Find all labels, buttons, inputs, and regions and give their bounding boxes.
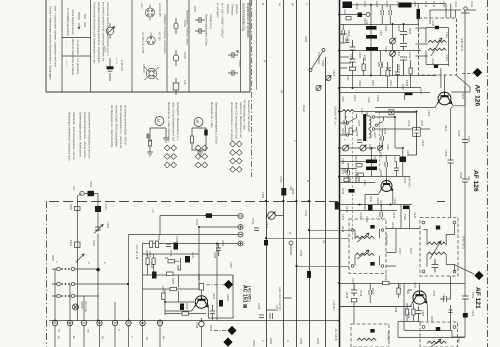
svg-text:L440: L440 — [363, 180, 367, 186]
svg-text:C446: C446 — [459, 172, 463, 179]
switch gang dashed — [352, 112, 354, 240]
svg-text:+ + +: + + + — [65, 60, 68, 66]
svg-text:C606: C606 — [385, 1, 389, 8]
transistor socket symbol 2 — [147, 33, 155, 45]
svg-text:R509: R509 — [291, 188, 295, 195]
AM460 pins — [351, 229, 354, 232]
svg-text:U(t) AM / AF / st.!: U(t) AM / AF / st.! — [334, 106, 338, 126]
svg-text:AM OSZ.: AM OSZ. — [408, 177, 412, 188]
svg-text:30p: 30p — [467, 176, 471, 181]
junction dots front — [370, 4, 372, 6]
svg-text:R502: R502 — [145, 250, 149, 257]
svg-text:NF-Messungen an ◇ über: NF-Messungen an ◇ über — [243, 100, 247, 130]
resistor R507 — [156, 241, 159, 248]
svg-text:gedruckt: gedruckt — [235, 4, 239, 14]
coil L407 — [366, 160, 377, 164]
svg-text:Nachdruck - auch auszugsweise: Nachdruck - auch auszugsweise - nur mit — [72, 112, 76, 160]
svg-text:C552: C552 — [299, 338, 303, 345]
svg-text:C609: C609 — [384, 46, 388, 53]
resistor R603 — [75, 242, 81, 248]
extra components lower mid — [369, 283, 372, 303]
V442 base wire — [375, 75, 453, 108]
small circle terminal mid — [289, 241, 293, 245]
capacitor voltage symbols — [195, 17, 205, 34]
svg-text:C505: C505 — [221, 240, 225, 247]
L407 wires — [339, 148, 410, 177]
svg-text:R404: R404 — [341, 168, 345, 175]
svg-text:Halbleiter / Transistor, conne: Halbleiter / Transistor, connections — [163, 14, 167, 54]
svg-text:TB: TB — [86, 329, 90, 333]
svg-text:240: 240 — [346, 76, 350, 81]
resistor R606 — [362, 64, 365, 71]
svg-text:L601: L601 — [104, 204, 108, 210]
svg-text:C450: C450 — [421, 310, 425, 317]
svg-text:L402: L402 — [367, 97, 371, 103]
svg-text:1/2 W: 1/2 W — [183, 52, 187, 59]
switch cluster FM dial — [309, 49, 331, 91]
svg-text:R601: R601 — [69, 204, 73, 211]
svg-text:C511: C511 — [304, 210, 308, 217]
svg-text:R539: R539 — [185, 303, 189, 310]
antenna caps C602b — [350, 59, 356, 67]
wire antenna down — [78, 194, 83, 322]
svg-text:L605: L605 — [413, 1, 417, 7]
R540 wire — [266, 215, 284, 217]
svg-text:only permitted with indication: only permitted with indication of source… — [88, 112, 92, 159]
svg-text:FM: FM — [457, 338, 461, 343]
svg-text:C452: C452 — [471, 292, 475, 299]
wire y313 — [398, 321, 421, 323]
wire to connector 243 — [143, 244, 239, 321]
svg-text:reserved! Reproduction - also: reserved! Reproduction - also by extract… — [83, 112, 87, 160]
svg-text:Antenne (60pF; 400Ω) durchgefü: Antenne (60pF; 400Ω) durchgeführt! — [115, 105, 119, 147]
connector circle column — [238, 214, 243, 247]
cap C409 wires — [395, 117, 403, 177]
svg-text:Explanation of symbols: Explanation of symbols — [246, 3, 250, 38]
resistor R539 — [182, 312, 189, 315]
svg-text:C611: C611 — [397, 50, 401, 57]
extra components AM rows — [344, 112, 347, 136]
resistor symbol 1W — [173, 78, 179, 95]
AM460 internal wires — [354, 229, 380, 266]
svg-text:R537: R537 — [161, 286, 165, 293]
svg-text:VL?: VL? — [72, 186, 76, 191]
box2 internal wires — [424, 224, 455, 272]
resistor R537 — [162, 293, 165, 300]
junction dots on gray wires — [265, 237, 267, 239]
svg-text:M: M — [288, 232, 292, 234]
junction dots am — [394, 116, 396, 118]
svg-text:R551: R551 — [269, 338, 273, 345]
svg-text:R536: R536 — [197, 274, 201, 281]
svg-text:C618: C618 — [349, 54, 353, 61]
caps C610 — [400, 24, 407, 43]
wire row3 to right — [84, 295, 99, 297]
V442 collector to x465 — [453, 86, 465, 106]
svg-text:C403: C403 — [341, 158, 345, 165]
V444 wires — [339, 283, 427, 330]
R600 wire — [352, 71, 354, 88]
AF box extra caps — [216, 244, 221, 257]
svg-text:rt: rt — [305, 3, 309, 5]
extra caps row y60-75 — [379, 51, 382, 76]
svg-text:R609: R609 — [347, 30, 351, 37]
svg-text:Minus an Masse: Minus an Masse — [71, 39, 75, 58]
AM460 cap bottom — [370, 262, 374, 266]
svg-text:Messungen an ◇ über: Messungen an ◇ über — [210, 102, 214, 128]
svg-text:C425: C425 — [427, 110, 431, 117]
pointer knob symbol — [106, 23, 114, 39]
ambox2 cap — [370, 329, 374, 333]
svg-text:R547: R547 — [409, 248, 413, 255]
coil L603b — [366, 35, 377, 39]
svg-text:Belastbarkeit / Resistor, rati: Belastbarkeit / Resistor, rating — [186, 10, 190, 45]
svg-text:T546: T546 — [403, 214, 407, 220]
FM small rect R604b — [346, 17, 351, 20]
svg-text:C406: C406 — [355, 130, 359, 137]
terminal under V542 — [199, 321, 204, 326]
electrolytic C510 — [281, 188, 286, 196]
svg-text:C610: C610 — [397, 25, 401, 32]
svg-text:M: M — [344, 116, 348, 118]
resistor R543 — [383, 281, 390, 284]
trimmer C608 — [390, 38, 396, 44]
trimmer small — [366, 13, 370, 17]
dashdot y330 — [214, 330, 227, 332]
terminal tails — [55, 326, 160, 347]
antenna caps C601 — [350, 40, 356, 59]
svg-text:SP600: SP600 — [80, 301, 84, 309]
page frame dash-dot right — [487, 0, 489, 347]
svg-text:Quellenangabe gestattet. Modif: Quellenangabe gestattet. Modifications — [79, 112, 83, 158]
svg-text:C451: C451 — [442, 294, 446, 301]
svg-text:C509: C509 — [261, 192, 265, 199]
AM460 arrow lower — [357, 250, 369, 259]
svg-text:rt: rt — [130, 336, 134, 338]
cap C417 — [351, 283, 357, 296]
wire y111 — [339, 111, 417, 113]
cap on x465 lower — [462, 179, 468, 182]
junction dots border — [338, 14, 340, 16]
boxed trimmer cap C416 — [413, 127, 420, 136]
ferrite pins — [372, 116, 375, 119]
trimmer C405b — [378, 146, 383, 151]
cap on x450 — [448, 160, 454, 163]
comps in AM rows 150-180 — [347, 163, 350, 183]
svg-text:( AC 035 ): ( AC 035 ) — [247, 286, 251, 302]
ferrite coil 2 — [369, 130, 371, 138]
dashdot to test diamond — [206, 284, 224, 286]
box1 cap top — [435, 26, 439, 29]
wire x98 down — [97, 234, 99, 270]
svg-text:R505: R505 — [157, 234, 161, 241]
svg-text:Plus an Masse: Plus an Masse — [71, 58, 75, 76]
svg-text:AC 105 / AC 107B: AC 105 / AC 107B — [141, 32, 145, 53]
svg-text:C419: C419 — [431, 58, 435, 65]
wire x165 305-313 — [178, 275, 180, 302]
wire y204 — [339, 204, 412, 206]
AF box resistor R532 — [168, 260, 175, 263]
svg-text:R608: R608 — [405, 80, 409, 87]
svg-text:Violett: Violett — [302, 105, 306, 112]
arrow symbol — [78, 12, 85, 29]
svg-text:R438: R438 — [345, 206, 349, 213]
svg-text:L405: L405 — [386, 144, 390, 150]
svg-text:C: C — [261, 340, 265, 342]
svg-text:C445: C445 — [457, 130, 461, 137]
capacitor C600 — [88, 191, 95, 196]
svg-text:1n = 1nF = 1000pF = 0,001µF: 1n = 1nF = 1000pF = 0,001µF — [221, 3, 225, 38]
coil L603c — [366, 47, 378, 51]
resistor R436 — [344, 178, 350, 181]
transistor V443 — [380, 181, 392, 192]
wire y10 right — [430, 10, 476, 24]
transistor V442 — [437, 92, 452, 105]
svg-text:C420: C420 — [442, 1, 446, 8]
switch contact row a3 — [52, 294, 84, 297]
cap C450 — [416, 307, 422, 322]
meter1 capacitor — [146, 133, 150, 139]
wire to connector 234 (box top) — [129, 235, 239, 321]
diamond grid 3 — [230, 141, 242, 172]
svg-text:FM (UKW): FM (UKW) — [317, 52, 321, 64]
antenna jack circle — [464, 7, 467, 10]
wire y306 — [339, 306, 412, 308]
trimmer C403 — [343, 145, 349, 151]
svg-text:+ve grounded: +ve grounded — [76, 58, 80, 74]
svg-text:C510: C510 — [279, 176, 283, 183]
AM460 cap top — [370, 225, 374, 229]
svg-text:key switch (contacts a+b), con: key switch (contacts a+b), connections b… — [102, 2, 106, 62]
wire switch verticals — [55, 269, 115, 320]
svg-text:-ve grounded: -ve grounded — [76, 39, 80, 55]
svg-text:C407: C407 — [373, 132, 377, 139]
box1 cap bottom — [434, 64, 438, 68]
IF transformer FM10.7 box1 — [419, 18, 457, 75]
svg-text:C422: C422 — [470, 1, 474, 8]
electrolytic C539 — [219, 300, 223, 307]
svg-text:R419: R419 — [345, 292, 349, 299]
wire y275 — [143, 275, 234, 283]
junction dots AF box — [216, 243, 218, 245]
svg-text:V542: V542 — [226, 294, 230, 301]
trimmer C602 arrow — [94, 225, 103, 234]
svg-text:C614: C614 — [432, 1, 436, 8]
svg-text:C538: C538 — [195, 322, 199, 329]
svg-text:C423: C423 — [420, 120, 424, 127]
coil L408 — [366, 167, 377, 171]
svg-text:C442: C442 — [392, 212, 396, 219]
svg-text:V444: V444 — [432, 290, 436, 297]
test diamond AF121 — [474, 271, 483, 280]
svg-text:R448: R448 — [394, 306, 398, 313]
svg-text:Tolerance: Tolerance — [231, 4, 235, 16]
gang dashed 2 — [379, 112, 381, 172]
svg-text:p = pF (µµF): p = pF (µµF) — [216, 3, 220, 18]
meter2 resistor — [191, 136, 194, 143]
V442 emitter wire — [451, 107, 453, 218]
battery symbol E46C10 — [107, 58, 113, 81]
extra wire from row2 to right — [98, 283, 128, 285]
diamond grid 2 — [195, 145, 207, 168]
caps C612 — [400, 57, 407, 76]
svg-text:R540: R540 — [209, 325, 213, 332]
svg-text:C613: C613 — [424, 1, 428, 8]
wire base V542 — [143, 289, 200, 315]
svg-text:R510: R510 — [265, 222, 269, 229]
caps between osc and box — [380, 205, 383, 220]
V542 collector emitter wires — [165, 275, 233, 321]
svg-text:C401: C401 — [353, 95, 357, 102]
svg-text:19V 0,1A: 19V 0,1A — [84, 301, 88, 312]
svg-text:R423: R423 — [444, 125, 448, 132]
svg-text:1,5k: 1,5k — [365, 20, 369, 26]
gray wire y266 — [297, 266, 350, 268]
extra small caps near border — [342, 24, 345, 43]
svg-text:Spannungsangaben (V) bei: Spannungsangaben (V) bei — [205, 14, 209, 46]
wire bus vertical D — [309, 0, 311, 347]
svg-text:C600: C600 — [89, 181, 93, 188]
electrolytic C453 — [463, 313, 468, 318]
svg-text:e b c: e b c — [140, 3, 144, 9]
svg-text:all HF measurements at ◇ carri: all HF measurements at ◇ carried out — [119, 105, 123, 149]
svg-text:C547: C547 — [398, 248, 402, 255]
wire y155 — [339, 156, 360, 162]
svg-text:AF 126: AF 126 — [472, 170, 479, 192]
svg-text:C506: C506 — [213, 252, 217, 259]
capacitor C512 — [206, 213, 212, 218]
box3 arrow — [431, 339, 441, 347]
component on border — [335, 202, 339, 210]
svg-text:C443: C443 — [413, 212, 417, 219]
tolerance capacitor symbols — [228, 51, 239, 77]
svg-text:C601: C601 — [345, 36, 349, 43]
test diamond FM1 — [473, 68, 482, 77]
meter1 ground — [147, 152, 153, 156]
gray wire y238 — [267, 238, 350, 240]
IF transformer AM box2 — [351, 324, 389, 347]
AF box black rect — [185, 256, 190, 263]
svg-text:C439: C439 — [393, 198, 397, 205]
svg-text:all measurements at ◇ via volt: all measurements at ◇ via voltage — [230, 102, 234, 142]
svg-text:R427: R427 — [401, 84, 405, 91]
svg-text:AM 460: AM 460 — [387, 331, 391, 342]
schematic main border — [339, 0, 341, 347]
svg-text:M: M — [156, 119, 161, 122]
svg-text:L602: L602 — [92, 240, 96, 246]
AM460 coil upper — [355, 236, 374, 238]
svg-text:C602: C602 — [358, 52, 362, 59]
svg-text:R605: R605 — [408, 28, 412, 35]
svg-text:V542: V542 — [212, 293, 216, 300]
wire y283 long — [339, 283, 465, 285]
gray wire y230 — [310, 230, 352, 232]
svg-text:R552: R552 — [316, 338, 320, 345]
junction dots on fold line — [265, 200, 267, 202]
svg-text:400V: 400V — [193, 6, 197, 12]
svg-text:C409: C409 — [406, 150, 410, 157]
bottom rail wire — [49, 320, 338, 322]
svg-text:lines = connections between: lines = connections between components a… — [54, 6, 58, 68]
dial lamp — [73, 304, 79, 310]
svg-text:R418: R418 — [341, 226, 345, 233]
svg-text:R437: R437 — [369, 196, 373, 203]
svg-text:C440: C440 — [365, 216, 369, 223]
variometer contacts — [377, 117, 384, 125]
svg-text:R402: R402 — [383, 128, 387, 135]
svg-text:Kontakten in Ruhestellung geze: Kontakten in Ruhestellung gezeichnet. Zu… — [97, 2, 101, 63]
legend table outer border — [46, 0, 250, 92]
svg-text:rt: rt — [293, 140, 297, 142]
svg-text:Tastenschalter (Kontakte a+b),: Tastenschalter (Kontakte a+b), Verbindun… — [93, 2, 97, 64]
FM extra stub wires — [339, 34, 349, 68]
test diamond 342 — [223, 337, 232, 346]
wire y24 — [339, 24, 419, 26]
svg-text:C424: C424 — [419, 88, 423, 95]
wire to connector 216 — [160, 216, 238, 235]
svg-text:−9V / AF 1 B!: −9V / AF 1 B! — [135, 244, 139, 260]
svg-text:C617: C617 — [389, 80, 393, 87]
svg-text:C421: C421 — [454, 1, 458, 8]
svg-text:R405: R405 — [379, 170, 383, 177]
svg-text:durchgeführt. Measurements at: durchgeführt. Measurements at ◇ — [176, 102, 180, 142]
svg-text:Spannungsgegenkopplung 1:10 un: Spannungsgegenkopplung 1:10 und — [215, 102, 219, 144]
svg-text:9V: 9V — [145, 337, 149, 340]
svg-text:AF 126: AF 126 — [474, 85, 481, 107]
svg-text:C417: C417 — [351, 278, 355, 285]
box2 coil upper — [427, 242, 446, 244]
wire y75 — [339, 75, 437, 77]
blob coil L600 — [343, 2, 353, 9]
svg-text:R535: R535 — [171, 278, 175, 285]
switch contact s2 — [339, 127, 357, 135]
svg-text:C602: C602 — [106, 222, 110, 229]
wires between boxes — [386, 205, 420, 267]
electrolytic C536 — [152, 272, 157, 279]
svg-text:sw: sw — [101, 336, 104, 339]
junction diamond dot — [96, 267, 101, 272]
wire y210 — [339, 210, 397, 212]
coil L601 — [95, 206, 101, 212]
svg-text:C612: C612 — [408, 52, 412, 59]
svg-text:R532: R532 — [169, 250, 173, 257]
capacitor C535 — [178, 258, 181, 270]
svg-text:R450: R450 — [430, 316, 434, 323]
trimmer wires — [392, 24, 394, 76]
trimmer C404 — [360, 145, 366, 151]
svg-text:AF 101-105: AF 101-105 — [158, 3, 162, 17]
caps cluster C549 — [259, 313, 273, 319]
wire y14 — [339, 14, 366, 16]
transistor V542 — [195, 296, 209, 308]
svg-text:Toleranz: Toleranz — [226, 4, 230, 15]
diamond grid 1 — [164, 145, 176, 168]
svg-text:C416: C416 — [407, 120, 411, 127]
box2 cap bottom — [432, 259, 439, 273]
switch contact row a1 — [52, 267, 98, 270]
svg-text:V442: V442 — [461, 93, 465, 100]
wire y254 — [143, 253, 200, 255]
svg-text:L421: L421 — [445, 32, 449, 38]
meter icon 2 — [192, 118, 206, 157]
electrolytic C504 — [174, 243, 179, 250]
page frame long-dash top of lower section — [49, 201, 445, 203]
mid extra black rect — [368, 205, 373, 211]
box2 cap top — [436, 226, 440, 230]
svg-text:R603: R603 — [69, 240, 73, 247]
legend table column rules — [62, 0, 241, 92]
V443 wires — [365, 177, 393, 211]
